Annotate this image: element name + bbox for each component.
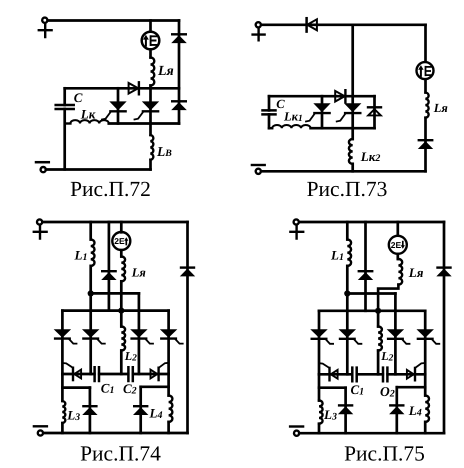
terminal minus (П.73) bbox=[252, 165, 265, 174]
diode VD6 right side of box (П.73) bbox=[368, 96, 381, 128]
svg-text:LВ: LВ bbox=[156, 144, 172, 159]
terminal plus (П.75) bbox=[290, 219, 303, 238]
inductor L1 branch (П.74) bbox=[91, 222, 95, 293]
wire motor to coil (П.72) bbox=[149, 50, 152, 58]
thyristor VS15 mid-left (П.75) bbox=[320, 363, 338, 380]
thyristor VS11 (П.75) bbox=[312, 311, 334, 375]
thyristor VS4 (П.73) bbox=[337, 104, 361, 122]
wire right rail (П.72) bbox=[178, 21, 181, 124]
wire lower bus (П.72) bbox=[109, 122, 179, 125]
node dot2 (П.75) bbox=[375, 308, 381, 314]
diode VD2 on box top pointing right bbox=[129, 82, 139, 94]
thyristor VS3 (П.73) bbox=[306, 96, 330, 128]
diode VD3 lower right rail bbox=[172, 101, 186, 109]
terminal minus (П.72) bbox=[36, 162, 49, 172]
svg-text:Lя: Lя bbox=[433, 101, 449, 115]
wire rail below coil (П.73) bbox=[424, 118, 427, 172]
svg-text:C1: C1 bbox=[101, 381, 115, 396]
svg-text:Рис.П.75: Рис.П.75 bbox=[344, 442, 425, 466]
svg-text:C2: C2 bbox=[123, 381, 137, 397]
svg-text:2Е: 2Е bbox=[114, 236, 125, 246]
svg-text:Lя: Lя bbox=[131, 266, 147, 280]
inductor Lв branch (П.72) bbox=[151, 124, 154, 170]
wire right rail (П.75) bbox=[443, 222, 446, 433]
thyristor VS12 (П.75) bbox=[340, 294, 362, 375]
inductor L2 (П.74) bbox=[121, 311, 125, 374]
wire motor drop (П.75) bbox=[396, 222, 399, 236]
wire motor drop (П.74) bbox=[120, 222, 123, 232]
wire inner-left horizontal (П.75) bbox=[319, 386, 346, 389]
thyristor VS5 (П.74) bbox=[55, 311, 77, 374]
wire box top (П.75) bbox=[319, 309, 425, 312]
motor U4 circle 2E bbox=[389, 236, 407, 254]
wire coil to box top (П.72) bbox=[149, 86, 152, 89]
wire box bottom (П.73) bbox=[311, 127, 375, 130]
svg-text:Lк1: Lк1 bbox=[283, 110, 303, 124]
wire top bus (П.72) bbox=[48, 19, 179, 22]
motor U3 circle 2E bbox=[112, 232, 130, 250]
wire motor to coil (П.73) bbox=[424, 80, 427, 93]
svg-text:C: C bbox=[74, 90, 83, 105]
inductor Lк1 (П.73) bbox=[269, 125, 311, 128]
capacitor C (П.73) bbox=[263, 96, 276, 128]
thyristor VS14 (П.75) bbox=[418, 311, 440, 396]
capacitor C (П.72) bbox=[56, 88, 74, 169]
diode VD5 on box top pointing right bbox=[335, 90, 345, 102]
terminal plus (П.73) bbox=[253, 22, 265, 40]
wire mid row segment c (П.74) bbox=[133, 373, 169, 376]
svg-text:Lк2: Lк2 bbox=[360, 149, 381, 164]
wire bottom (П.74) bbox=[43, 432, 187, 435]
svg-text:Lя: Lя bbox=[408, 265, 424, 280]
wire mid row segment a (П.74) bbox=[62, 373, 94, 376]
inductor L1 branch (П.75) bbox=[347, 222, 351, 294]
wire top bus (П.75) bbox=[299, 221, 444, 224]
inductor Lк (П.72) bbox=[65, 120, 109, 123]
svg-text:O2: O2 bbox=[380, 384, 395, 400]
inductor Lк2 (П.73) bbox=[349, 139, 353, 171]
inductor Lя (П.73) bbox=[426, 93, 429, 118]
node dot1 (П.75) bbox=[344, 290, 350, 296]
wire top bus (П.73) bbox=[261, 23, 425, 26]
wire right rail (П.74) bbox=[186, 222, 189, 433]
svg-text:L2: L2 bbox=[380, 349, 393, 363]
thyristor VS1 (П.72) bbox=[102, 88, 126, 123]
wire inner-right horizontal (П.75) bbox=[397, 386, 425, 389]
wire mid row segment a (П.75) bbox=[319, 373, 352, 376]
wire box top (П.72) bbox=[65, 87, 179, 90]
capacitor C2 (П.74) bbox=[128, 367, 132, 381]
svg-text:Рис.П.72: Рис.П.72 bbox=[70, 177, 151, 201]
wire box top (П.73) bbox=[269, 95, 375, 98]
svg-text:L4: L4 bbox=[408, 403, 422, 418]
node dot1 (П.74) bbox=[88, 290, 94, 296]
inductor L2 (П.75) bbox=[378, 311, 382, 375]
capacitor C1 (П.74) bbox=[95, 367, 99, 381]
wire top bus (П.74) bbox=[43, 221, 188, 224]
thyristor VS7 (П.74) bbox=[131, 330, 153, 344]
capacitor C1 (П.75) bbox=[352, 368, 356, 382]
inductor Lя (П.74) bbox=[121, 250, 125, 310]
svg-text:L1: L1 bbox=[74, 248, 88, 263]
thyristor VS10 mid-right (П.74) bbox=[151, 363, 168, 380]
thyristor VS16 mid-right (П.75) bbox=[407, 363, 424, 380]
wire motor drop (П.72) bbox=[149, 21, 152, 32]
wire S3 vertical (П.75) bbox=[394, 294, 397, 375]
wire mid row segment b (П.74) bbox=[99, 373, 128, 376]
svg-text:L1: L1 bbox=[330, 248, 344, 263]
svg-text:L2: L2 bbox=[124, 349, 137, 363]
thyristor VS2 (П.72) bbox=[135, 88, 159, 123]
svg-text:Рис.П.74: Рис.П.74 bbox=[80, 442, 161, 466]
svg-text:C1: C1 bbox=[351, 382, 365, 397]
inductor Lя (П.75) bbox=[398, 254, 402, 285]
wire dot1 to S3 drop (П.74) bbox=[91, 292, 139, 295]
diode VD7 on right rail (П.73) bbox=[419, 140, 432, 148]
terminal minus (П.75) bbox=[290, 427, 303, 436]
wire inner-left horizontal (П.74) bbox=[62, 386, 90, 389]
diode VD9 inner-left (П.74) bbox=[83, 388, 96, 433]
wire box top (П.74) bbox=[62, 309, 168, 312]
wire bottom (П.72) bbox=[46, 168, 151, 171]
capacitor C2 (П.75) bbox=[383, 368, 387, 382]
inductor L3 (П.75) bbox=[319, 374, 323, 433]
diode VD13 inner-left (П.75) bbox=[339, 388, 352, 434]
wire bottom (П.75) bbox=[299, 432, 444, 435]
thyristor VS9 mid-left (П.74) bbox=[63, 363, 81, 380]
diode VD1 top of right rail bbox=[172, 34, 186, 42]
wire Lя elbow (П.75) bbox=[378, 285, 398, 311]
diode VD10 inner-right (П.74) bbox=[134, 387, 147, 433]
motor U2 circle 1E bbox=[417, 62, 434, 79]
wire center drop (П.73) bbox=[351, 25, 354, 139]
thyristor VS8 (П.74) bbox=[161, 311, 183, 396]
svg-text:L3: L3 bbox=[66, 408, 80, 423]
svg-text:Lя: Lя bbox=[157, 64, 174, 79]
diode VD4 on top bus pointing left bbox=[307, 18, 317, 31]
diode VD12 branch (П.75) bbox=[359, 222, 372, 311]
inductor L4 (П.74) bbox=[169, 396, 173, 434]
wire dot1 to S3 drop (П.75) bbox=[347, 292, 395, 295]
wire mid row segment b (П.75) bbox=[357, 373, 383, 376]
terminal plus (П.74) bbox=[34, 219, 47, 238]
wire mid row segment c (П.75) bbox=[388, 373, 426, 376]
svg-text:L3: L3 bbox=[323, 407, 337, 422]
inductor L3 (П.74) bbox=[62, 374, 65, 433]
inductor Lя (П.72) bbox=[151, 58, 155, 86]
svg-text:Рис.П.73: Рис.П.73 bbox=[307, 177, 388, 201]
diode VD8 branch (П.74) bbox=[102, 222, 115, 311]
thyristor VS6 (П.74) bbox=[83, 293, 105, 374]
motor U1 circle 1E bbox=[142, 32, 160, 50]
thyristor VS13 (П.75) bbox=[388, 330, 410, 344]
diode VD15 right rail (П.75) bbox=[438, 268, 451, 276]
diode VD11 right rail (П.74) bbox=[181, 268, 194, 276]
terminal minus (П.74) bbox=[34, 426, 47, 435]
svg-text:L4: L4 bbox=[149, 406, 163, 421]
wire right rail upper (П.73) bbox=[424, 25, 427, 62]
wire S3 vertical (П.74) bbox=[138, 293, 141, 374]
inductor L4 (П.75) bbox=[425, 396, 429, 434]
svg-text:Lк: Lк bbox=[80, 106, 96, 121]
wire bottom (П.73) bbox=[261, 170, 425, 173]
node dot2 (П.74) bbox=[118, 308, 124, 314]
svg-text:2Е: 2Е bbox=[391, 240, 402, 250]
wire inner-right horizontal (П.74) bbox=[141, 385, 169, 388]
terminal plus (П.72) bbox=[39, 18, 52, 37]
diode VD14 inner-right (П.75) bbox=[390, 387, 403, 433]
